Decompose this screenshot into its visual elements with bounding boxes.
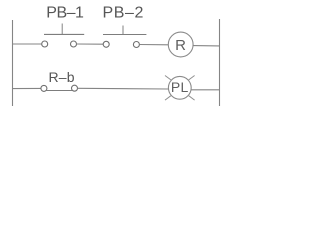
wire: R-b to lamp PL (78, 87, 169, 90)
lamp PL ray SE (189, 96, 195, 100)
svg-text:R–b: R–b (49, 69, 75, 85)
pilot lamp PL (168, 76, 191, 99)
lamp PL ray SW (165, 96, 171, 100)
contact R-b circle 1 (41, 85, 47, 91)
relay coil R (168, 32, 193, 57)
pushbutton PB-1 contact circle B (71, 41, 77, 47)
wire: lamp PL to right rail (191, 89, 219, 91)
contact R-b closed bar (46, 90, 72, 92)
contact R-b circle 2 (72, 85, 78, 91)
left rail (12, 20, 14, 106)
pushbutton PB-2 contact circle B (133, 42, 139, 48)
wire: PB-2 to relay coil R (139, 44, 168, 46)
wire: left rail to PB-1 (13, 43, 42, 45)
svg-text:R: R (175, 37, 186, 54)
svg-text:PL: PL (171, 79, 189, 95)
svg-text:PB–1: PB–1 (46, 5, 84, 22)
pushbutton PB-1 movable bar (44, 33, 84, 35)
pushbutton PB-1 contact circle A (42, 41, 48, 47)
pushbutton PB-1 actuator stem (61, 24, 63, 35)
wire: coil R to right rail (193, 45, 219, 47)
wire: PB-1 to PB-2 (77, 43, 104, 45)
svg-text:PB–2: PB–2 (103, 5, 145, 22)
pushbutton PB-2 movable bar (103, 34, 146, 36)
lamp PL ray NE (189, 76, 195, 80)
pushbutton PB-2 contact circle A (103, 41, 109, 47)
pushbutton PB-2 actuator stem (122, 26, 124, 35)
right rail (219, 19, 221, 106)
lamp PL ray NW (165, 76, 171, 80)
wire: left rail to contact R-b (13, 87, 42, 89)
